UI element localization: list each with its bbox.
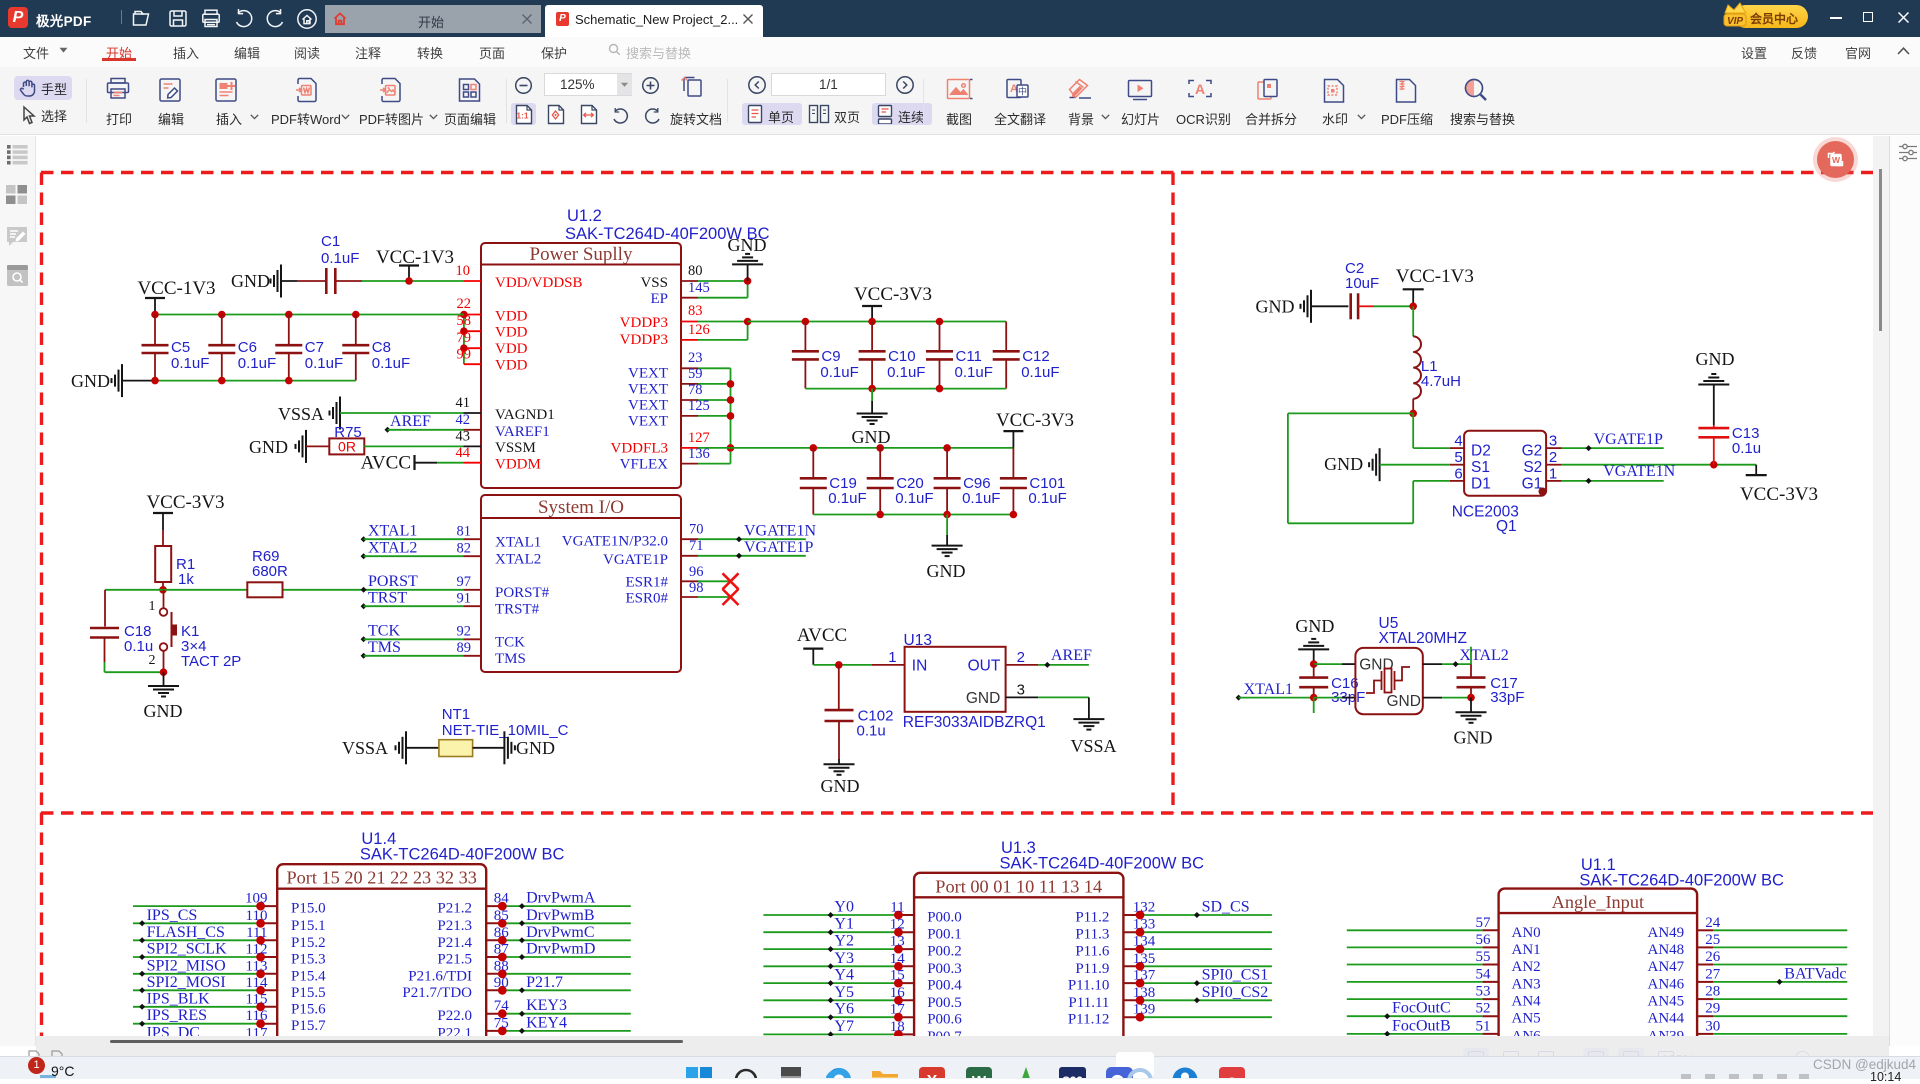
U5 crystal symbol (1366, 667, 1410, 693)
svg-text:Port 15 20 21 22 23 32 33: Port 15 20 21 22 23 32 33 (286, 868, 476, 888)
ic U1.1 box (1499, 889, 1698, 1056)
svg-text:4: 4 (1454, 433, 1462, 450)
svg-text:W: W (1832, 155, 1841, 165)
svg-text:GND: GND (1359, 657, 1393, 674)
TCK wire pin 92 (361, 636, 367, 642)
capacitor C2 (1349, 293, 1352, 319)
svg-text:C1: C1 (321, 233, 340, 250)
svg-text:XTAL1: XTAL1 (1244, 681, 1293, 698)
svg-text:1k: 1k (178, 571, 194, 588)
svg-text:GND: GND (728, 235, 767, 255)
caps C19 C20 C96 C101 (812, 448, 814, 478)
wire AVCC to U13 IN (813, 664, 872, 666)
U1.3 pin 139 wire (1123, 1016, 1140, 1018)
power flag VCC-3V3 inverted (1755, 465, 1757, 475)
U1.4 pin 86 wire (486, 939, 502, 941)
svg-text:P11.10: P11.10 (1068, 978, 1110, 994)
U1.1 pin 29 wire (1697, 1015, 1713, 1017)
svg-text:134: 134 (1133, 934, 1156, 950)
svg-text:13: 13 (890, 934, 905, 950)
junctions on VDD rail (151, 311, 159, 319)
wire GND to R75 (306, 445, 329, 447)
svg-text:AN4: AN4 (1512, 994, 1542, 1010)
svg-text:C10: C10 (888, 348, 916, 365)
svg-text:GND: GND (1696, 349, 1735, 369)
svg-text:P15.4: P15.4 (291, 968, 326, 984)
svg-text:P22.1: P22.1 (437, 1025, 472, 1036)
svg-text:78: 78 (688, 382, 703, 398)
svg-text:DrvPwmC: DrvPwmC (526, 924, 594, 941)
svg-text:AN45: AN45 (1648, 994, 1685, 1010)
svg-text:25: 25 (1705, 932, 1720, 948)
U1.4 pin 85 wire (486, 922, 502, 924)
svg-text:VDDM: VDDM (495, 457, 541, 473)
svg-text:C11: C11 (956, 348, 982, 365)
svg-text:AN3: AN3 (1512, 976, 1541, 992)
svg-text:P11.6: P11.6 (1075, 944, 1110, 960)
wire C18 branch down (104, 590, 106, 627)
wire junction to R69 (163, 589, 247, 591)
svg-text:1: 1 (888, 649, 896, 666)
svg-text:SAK-TC264D-40F200W BC: SAK-TC264D-40F200W BC (1000, 854, 1205, 872)
svg-text:AN6: AN6 (1512, 1028, 1542, 1036)
wire VDD rail (155, 314, 464, 316)
junction C102 (835, 661, 843, 669)
ground under C10 (871, 389, 873, 401)
svg-text:AVCC: AVCC (361, 453, 411, 474)
svg-text:AN47: AN47 (1648, 959, 1685, 975)
inductor L1 (1413, 336, 1421, 398)
U1.3 pin 132 wire (1123, 914, 1140, 916)
wire C2 to VCC-1V3 (1358, 305, 1374, 307)
svg-text:56: 56 (1476, 932, 1492, 948)
wire U13 GND to VSSA (1006, 696, 1039, 698)
ground under K1 (163, 672, 165, 686)
svg-text:GND: GND (1256, 297, 1295, 317)
svg-text:P11.3: P11.3 (1075, 927, 1109, 943)
svg-text:90: 90 (494, 975, 509, 991)
svg-text:30: 30 (1705, 1018, 1720, 1034)
svg-text:C7: C7 (305, 339, 324, 356)
svg-text:VCC-1V3: VCC-1V3 (376, 247, 454, 268)
svg-text:145: 145 (688, 280, 710, 296)
svg-text:VCC-3V3: VCC-3V3 (146, 492, 224, 513)
svg-text:AVCC: AVCC (797, 625, 847, 646)
svg-text:P11.12: P11.12 (1068, 1012, 1110, 1028)
svg-text:1: 1 (149, 599, 156, 614)
U1.1 pin 52 wire (1347, 1015, 1483, 1017)
U1.1 pin 54 wire (1347, 981, 1483, 983)
wire U13 OUT AREF (1006, 664, 1039, 666)
U1.2 power supply box (481, 243, 681, 488)
svg-text:S1: S1 (1471, 459, 1490, 476)
svg-text:Y7: Y7 (834, 1018, 854, 1035)
svg-text:GND: GND (927, 561, 966, 581)
svg-text:SD_CS: SD_CS (1202, 899, 1250, 916)
junction VDDP3 (744, 318, 752, 326)
svg-text:VSSA: VSSA (342, 738, 388, 758)
svg-text:VGATE1N: VGATE1N (744, 523, 816, 540)
svg-text:中: 中 (1018, 86, 1027, 97)
svg-text:VGATE1P: VGATE1P (744, 539, 813, 556)
svg-text:AN1: AN1 (1512, 942, 1541, 958)
wire S2 to VCC-3V3 (1562, 464, 1757, 466)
svg-text:82: 82 (457, 541, 472, 557)
capacitor C17 (1470, 664, 1472, 678)
U1.4 pin 84 wire (486, 905, 502, 907)
VGATE1P wire pin 71 (681, 555, 698, 557)
wire VDDFL3 rail (731, 447, 1014, 449)
svg-text:S2: S2 (1523, 459, 1542, 476)
svg-text:VSSA: VSSA (278, 404, 324, 424)
svg-text:GND: GND (231, 271, 270, 291)
wire C9-C12 bottom rail (805, 388, 1006, 390)
svg-text:A: A (1195, 81, 1205, 97)
svg-text:132: 132 (1133, 900, 1156, 916)
svg-text:EP: EP (650, 291, 668, 307)
svg-text:AN2: AN2 (1512, 959, 1541, 975)
wire C102 to GND (838, 721, 840, 759)
ground symbol left of C5 (121, 364, 123, 397)
svg-text:87: 87 (494, 942, 510, 958)
TRST wire pin 91 (361, 603, 367, 609)
svg-text:P21.3: P21.3 (437, 918, 472, 934)
svg-text:P00.0: P00.0 (927, 910, 962, 926)
svg-text:GND: GND (516, 738, 555, 758)
svg-text:1: 1 (1549, 466, 1557, 483)
svg-text:C8: C8 (372, 339, 391, 356)
svg-text:VEXT: VEXT (628, 414, 668, 430)
U1.1 pin 56 wire (1347, 946, 1483, 948)
ground under C102 (824, 763, 855, 765)
svg-text:VGATE1P: VGATE1P (603, 552, 668, 568)
svg-text:Q1: Q1 (1496, 518, 1517, 535)
svg-text:GND: GND (249, 437, 288, 457)
svg-text:VSS: VSS (640, 275, 668, 291)
ic U1.3 box (914, 873, 1123, 1056)
svg-text:SAK-TC264D-40F200W BC: SAK-TC264D-40F200W BC (1579, 872, 1784, 890)
svg-text:a: a (1228, 1073, 1237, 1078)
svg-text:VDD: VDD (495, 325, 528, 341)
svg-text:VAGND1: VAGND1 (495, 407, 555, 423)
svg-text:VEXT: VEXT (628, 398, 668, 414)
svg-text:0.1uF: 0.1uF (372, 355, 410, 372)
U1.1 pin 26 wire (1697, 964, 1713, 966)
svg-text:54: 54 (1476, 966, 1492, 982)
svg-text:VDDFL3: VDDFL3 (610, 441, 668, 457)
junction K1 bottom (160, 668, 168, 676)
TMS wire pin 89 (361, 653, 367, 659)
svg-text:VAREF1: VAREF1 (495, 424, 550, 440)
ground under C17 (1470, 698, 1472, 713)
svg-text:Power Suplly: Power Suplly (530, 244, 633, 265)
svg-text:Y4: Y4 (834, 967, 854, 984)
junctions on VDD stub rail (460, 311, 468, 319)
junction VSS/EP (744, 277, 752, 285)
U1.4 pin 88 wire (486, 973, 502, 975)
svg-text:139: 139 (1133, 1002, 1156, 1018)
svg-text:42: 42 (456, 412, 471, 428)
svg-text:0.1uF: 0.1uF (1021, 364, 1059, 381)
svg-text:P00.1: P00.1 (927, 927, 962, 943)
U1.3 pin 11 wire (763, 914, 898, 916)
svg-text:133: 133 (1133, 917, 1156, 933)
svg-text:98: 98 (689, 580, 704, 596)
svg-text:28: 28 (1705, 984, 1720, 1000)
svg-text:SPI2_MISO: SPI2_MISO (147, 957, 226, 974)
svg-text:FocOutC: FocOutC (1392, 1000, 1451, 1017)
svg-text:97: 97 (457, 574, 472, 590)
svg-text:XTAL1: XTAL1 (495, 535, 541, 551)
U1.4 pin 112 wire (133, 956, 261, 958)
svg-text:15: 15 (890, 968, 905, 984)
svg-text:23: 23 (688, 350, 703, 366)
svg-text:U1.2: U1.2 (567, 207, 602, 225)
svg-text:33pF: 33pF (1490, 689, 1524, 706)
svg-text:79: 79 (457, 330, 472, 346)
U1.3 pin 17 wire (763, 1016, 898, 1018)
transistor Q1 box (1464, 431, 1546, 496)
svg-text:FLASH_CS: FLASH_CS (147, 924, 225, 941)
svg-text:TCK: TCK (368, 623, 400, 640)
Q1 pin stubs right (1546, 447, 1562, 449)
svg-text:3: 3 (1549, 433, 1557, 450)
svg-text:TMS: TMS (368, 639, 401, 656)
svg-text:10: 10 (456, 263, 471, 279)
svg-text:SPI2_MOSI: SPI2_MOSI (147, 974, 226, 991)
svg-text:52: 52 (1476, 1001, 1491, 1017)
svg-text:GND: GND (144, 701, 183, 721)
svg-text:GND: GND (71, 371, 110, 391)
svg-text:VDDP3: VDDP3 (620, 332, 668, 348)
svg-text:W: W (972, 1073, 987, 1078)
capacitor C1 (325, 268, 328, 294)
U1.4 pin 116 wire (133, 1023, 261, 1025)
svg-text:109: 109 (245, 891, 268, 907)
svg-text:26: 26 (1705, 949, 1721, 965)
wire XTAL1 (1236, 695, 1242, 701)
wire R1 bottom (162, 582, 164, 590)
svg-text:80: 80 (688, 263, 703, 279)
svg-text:0.1uF: 0.1uF (828, 490, 866, 507)
svg-text:P15.2: P15.2 (291, 935, 326, 951)
svg-text:XTAL2: XTAL2 (368, 540, 417, 557)
svg-text:VEXT: VEXT (628, 382, 668, 398)
svg-text:P00.4: P00.4 (927, 978, 962, 994)
wire C5-C8 bottom rail (122, 380, 152, 382)
junction C17 bottom (1467, 694, 1475, 702)
svg-text:P11.2: P11.2 (1075, 910, 1109, 926)
svg-text:SPI0_CS2: SPI0_CS2 (1202, 984, 1269, 1001)
svg-text:X: X (927, 1073, 938, 1078)
pin stubs VDD 22/58/79/99 (463, 315, 465, 365)
wire G1 VGATE1N (1562, 480, 1664, 482)
svg-text:XTAL1: XTAL1 (368, 523, 417, 540)
svg-text:P15.7: P15.7 (291, 1018, 326, 1034)
svg-text:KEY3: KEY3 (526, 997, 567, 1014)
wire C1 to pin 10 (335, 280, 362, 282)
svg-text:IPS_BLK: IPS_BLK (147, 990, 211, 1007)
U1.4 pin 90 wire (486, 989, 502, 991)
svg-text:P00.5: P00.5 (927, 995, 962, 1011)
U1.3 pin 135 wire (1123, 965, 1140, 967)
svg-text:0.1uF: 0.1uF (1028, 490, 1066, 507)
regulator U13 box (905, 647, 1006, 712)
capacitor C13 (1713, 425, 1715, 428)
svg-text:2: 2 (1549, 449, 1557, 466)
svg-text:AN39: AN39 (1648, 1028, 1685, 1036)
svg-text:VDD: VDD (495, 309, 528, 325)
junction VCC-1V3/L1 (1409, 303, 1417, 311)
U1.4 pin 111 wire (133, 939, 261, 941)
capacitor C18 (90, 627, 119, 630)
junction at VCC-1V3 pin10 (405, 277, 413, 285)
svg-text:P15.0: P15.0 (291, 901, 326, 917)
wire pin 41 (340, 412, 463, 414)
svg-text:P15.1: P15.1 (291, 918, 326, 934)
svg-text:P21.6/TDI: P21.6/TDI (408, 968, 472, 984)
wire L1 bottom (1412, 399, 1414, 414)
U1.3 pin 18 wire (763, 1033, 898, 1035)
wire R75 to pin 43 (364, 445, 463, 447)
svg-text:53: 53 (1476, 984, 1491, 1000)
svg-text:59: 59 (688, 366, 703, 382)
svg-text:41: 41 (456, 395, 471, 411)
decoupling caps C5 C6 C7 C8 (154, 315, 156, 346)
VEXT pins 23/59/78/125 (681, 367, 698, 369)
svg-text:GND: GND (821, 776, 860, 796)
svg-text:Y3: Y3 (834, 950, 854, 967)
svg-text:75: 75 (494, 1015, 509, 1031)
wire GND to C1 (281, 280, 298, 282)
svg-text:680R: 680R (252, 563, 288, 580)
svg-text:Y6: Y6 (834, 1001, 854, 1018)
U1.1 pin 53 wire (1347, 998, 1483, 1000)
svg-text:57: 57 (1476, 915, 1492, 931)
svg-text:117: 117 (246, 1025, 268, 1036)
pin 83 wire (681, 321, 698, 323)
capacitor C102 (838, 665, 840, 710)
svg-text:43: 43 (456, 429, 471, 445)
svg-text:P00.7: P00.7 (927, 1029, 962, 1036)
wire VSSA to NT1 (406, 747, 439, 749)
ground VSSA under U13 (1073, 718, 1104, 720)
svg-text:0.1uF: 0.1uF (887, 364, 925, 381)
junctions on bottom rail (151, 377, 159, 385)
junction C16 bottom (1310, 694, 1318, 702)
svg-text:127: 127 (688, 430, 710, 446)
svg-text:GND: GND (1454, 728, 1493, 748)
junction C16 top (1310, 660, 1318, 668)
svg-text:0.1uF: 0.1uF (305, 355, 343, 372)
ground symbol above pin 80 (747, 264, 749, 281)
XTAL1 wire pin 81 (361, 536, 367, 542)
svg-text:2: 2 (1017, 649, 1025, 666)
svg-text:D2: D2 (1471, 443, 1491, 460)
U1.3 pin 16 wire (763, 999, 898, 1001)
svg-text:24: 24 (1705, 915, 1721, 931)
svg-text:92: 92 (457, 624, 472, 640)
XTAL2 wire pin 82 (361, 553, 367, 559)
svg-text:D1: D1 (1471, 476, 1491, 493)
svg-text:70: 70 (689, 522, 704, 538)
svg-text:P21.2: P21.2 (437, 901, 472, 917)
svg-text:DrvPwmD: DrvPwmD (526, 941, 595, 958)
svg-text:VSSA: VSSA (1070, 736, 1116, 756)
ESR0 wire pin 98 with no-connect (681, 596, 698, 598)
junction C13/S2 (1710, 461, 1718, 469)
svg-text:12: 12 (890, 917, 905, 933)
svg-text:74: 74 (494, 998, 510, 1014)
svg-text:P00.3: P00.3 (927, 961, 962, 977)
svg-text:138: 138 (1133, 985, 1156, 1001)
wire loop to Q1 D2 (1412, 413, 1414, 448)
wire XTAL2 (1423, 663, 1442, 665)
pin 127 VDDFL3 wire (681, 447, 698, 449)
svg-text:IPS_CS: IPS_CS (147, 907, 198, 924)
svg-text:112: 112 (246, 942, 268, 958)
svg-text:135: 135 (1133, 951, 1156, 967)
svg-text:U13: U13 (904, 632, 932, 649)
junctions VDDFL3 rail (810, 444, 818, 452)
svg-text:REF3033AIDBZRQ1: REF3033AIDBZRQ1 (903, 714, 1046, 731)
svg-text:85: 85 (494, 908, 509, 924)
wire C18 to K1 bottom (104, 638, 106, 663)
svg-text:XTAL20MHZ: XTAL20MHZ (1379, 630, 1467, 647)
crystal U5 box (1355, 648, 1422, 714)
U1.1 pin 55 wire (1347, 964, 1483, 966)
svg-text:81: 81 (457, 524, 472, 540)
svg-text:27: 27 (1705, 966, 1721, 982)
svg-text:GND: GND (1324, 454, 1363, 474)
U1.3 pin 15 wire (763, 982, 898, 984)
svg-text:2: 2 (149, 653, 156, 668)
svg-text:GND: GND (966, 690, 1000, 707)
svg-text:VCC-3V3: VCC-3V3 (1740, 484, 1818, 505)
ground symbol at C1 (280, 265, 282, 298)
wire VDDP3 rail to caps (748, 321, 1007, 323)
svg-text:Angle_Input: Angle_Input (1552, 892, 1644, 912)
svg-text:0.1uF: 0.1uF (955, 364, 993, 381)
U1.1 pin 28 wire (1697, 998, 1713, 1000)
svg-text:P21.5: P21.5 (437, 952, 472, 968)
svg-text:Y0: Y0 (834, 899, 854, 916)
U1.1 pin 51 wire (1347, 1033, 1483, 1035)
svg-text:10uF: 10uF (1345, 275, 1379, 292)
svg-text:SAK-TC264D-40F200W BC: SAK-TC264D-40F200W BC (360, 846, 565, 864)
svg-text:P11.11: P11.11 (1068, 995, 1109, 1011)
svg-text:AN5: AN5 (1512, 1011, 1541, 1027)
U1.1 pin 57 wire (1347, 929, 1483, 931)
svg-text:IPS_DC: IPS_DC (147, 1024, 200, 1036)
svg-text:C6: C6 (238, 339, 257, 356)
svg-text:126: 126 (688, 322, 710, 338)
junction under L1 (1409, 410, 1417, 418)
svg-text:17: 17 (890, 1002, 906, 1018)
svg-text:0.1u: 0.1u (857, 723, 886, 740)
U1.4 pin 115 wire (133, 1006, 261, 1008)
svg-text:1:1: 1:1 (516, 111, 529, 121)
wire to L1 (1412, 306, 1414, 336)
svg-text:P00.2: P00.2 (927, 944, 962, 960)
svg-text:AN46: AN46 (1648, 976, 1685, 992)
svg-text:VCC-3V3: VCC-3V3 (996, 410, 1074, 431)
svg-text:AN49: AN49 (1648, 925, 1685, 941)
svg-text:0.1uF: 0.1uF (171, 355, 209, 372)
svg-text:P00.6: P00.6 (927, 1012, 962, 1028)
svg-text:DrvPwmA: DrvPwmA (526, 890, 596, 907)
U1.1 pin 27 wire (1697, 981, 1713, 983)
